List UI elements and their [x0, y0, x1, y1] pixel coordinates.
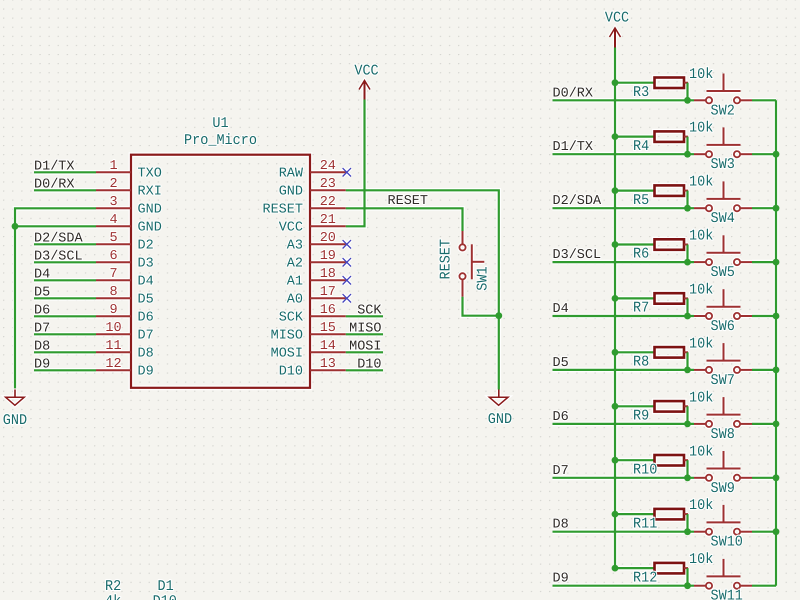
wire net D2/SDA to pin 5: [34, 243, 96, 245]
wire net MISO pin 15: [346, 333, 383, 335]
svg-text:14: 14: [320, 339, 336, 354]
pin 4 stub U1 left: [96, 225, 131, 227]
svg-text:3: 3: [109, 195, 117, 210]
svg-text:D10: D10: [279, 364, 303, 379]
svg-text:VCC: VCC: [279, 220, 303, 235]
svg-text:R12: R12: [633, 570, 657, 587]
svg-text:SW11: SW11: [711, 589, 743, 600]
junction node VCC bus R7: [612, 295, 619, 302]
wire SW9 to output bus: [752, 477, 776, 479]
svg-text:R9: R9: [633, 409, 649, 426]
junction node VCC bus R3: [612, 79, 619, 86]
switch SW3: [694, 127, 752, 173]
svg-text:TXO: TXO: [138, 166, 162, 181]
svg-text:GND: GND: [488, 412, 512, 429]
junction node output bus row 9: [773, 528, 780, 535]
wire SW2 to output bus: [752, 99, 776, 101]
svg-text:D5: D5: [553, 356, 569, 371]
wire SW4 to output bus: [752, 207, 776, 209]
svg-text:10k: 10k: [689, 498, 713, 515]
IC U1 Pro_Micro body: [131, 155, 310, 388]
svg-text:SW1: SW1: [476, 266, 493, 290]
wire branch R10: [615, 459, 655, 461]
wire net D9 to pin 12: [34, 369, 96, 371]
wire branch R12: [615, 567, 655, 569]
svg-text:D4: D4: [34, 267, 50, 282]
wire SW3 to output bus: [752, 153, 776, 155]
wire net D6 to pin 9: [34, 315, 96, 317]
svg-text:MISO: MISO: [271, 328, 303, 343]
svg-text:10k: 10k: [689, 390, 713, 407]
svg-text:D10: D10: [153, 594, 177, 600]
svg-text:D7: D7: [34, 321, 50, 336]
switch SW5: [694, 235, 752, 281]
pin 16 stub U1 right: [310, 315, 346, 317]
svg-text:D8: D8: [138, 346, 154, 361]
wire branch R4: [615, 136, 655, 138]
svg-text:10k: 10k: [689, 67, 713, 84]
junction node VCC bus R9: [612, 403, 619, 410]
wire net D3/SCL row: [553, 261, 695, 263]
svg-text:D5: D5: [138, 292, 154, 307]
svg-text:A3: A3: [287, 238, 303, 253]
pin 6 stub U1 left: [96, 261, 131, 263]
wire R11 output elbow: [684, 513, 688, 515]
svg-text:10k: 10k: [689, 121, 713, 138]
svg-text:GND: GND: [3, 413, 27, 430]
switch SW10: [694, 505, 752, 551]
svg-text:U1: U1: [212, 116, 228, 133]
svg-text:15: 15: [320, 321, 336, 336]
svg-text:D4: D4: [553, 302, 569, 317]
svg-text:R4: R4: [633, 139, 649, 156]
wire net D7 to pin 10: [34, 333, 96, 335]
resistor R10 10k: [633, 444, 713, 479]
wire R6 output elbow: [684, 244, 688, 246]
svg-text:9: 9: [109, 303, 117, 318]
wire net D2/SDA row: [553, 207, 695, 209]
junction node R10 to row: [684, 474, 691, 481]
wire pin3 GND elbow: [15, 208, 96, 226]
svg-text:D1/TX: D1/TX: [34, 159, 75, 174]
wire net D8 to pin 11: [34, 351, 96, 353]
wire R8 output elbow: [684, 351, 688, 353]
junction node output bus row 6: [773, 367, 780, 374]
svg-text:24: 24: [320, 159, 336, 174]
svg-text:D0/RX: D0/RX: [553, 86, 594, 101]
svg-text:D2/SDA: D2/SDA: [553, 194, 603, 209]
no-connect X pin 17: [343, 294, 351, 302]
svg-text:R5: R5: [633, 193, 649, 210]
wire VCC from pin21: [346, 100, 365, 227]
svg-text:12: 12: [105, 357, 121, 372]
svg-text:A0: A0: [287, 292, 303, 307]
junction node VCC bus R10: [612, 457, 619, 464]
wire net D1/TX to pin 1: [34, 171, 96, 173]
wire SW10 to output bus: [752, 531, 776, 533]
wire SW8 to output bus: [752, 423, 776, 425]
svg-text:D3/SCL: D3/SCL: [34, 249, 83, 264]
wire net D5 to pin 8: [34, 297, 96, 299]
svg-text:D3: D3: [138, 256, 154, 271]
switch SW4: [694, 181, 752, 227]
switch SW7: [694, 343, 752, 389]
junction node R6 to row: [684, 259, 691, 266]
switch SW1: [439, 231, 493, 297]
svg-text:Pro_Micro: Pro_Micro: [184, 133, 257, 150]
junction node output bus row 2: [773, 151, 780, 158]
svg-text:SW8: SW8: [711, 427, 735, 444]
pin 22 stub U1 right: [310, 207, 346, 209]
ground symbol left: [3, 390, 27, 430]
wire branch R8: [615, 351, 655, 353]
svg-text:GND: GND: [138, 220, 162, 235]
power symbol VCC top right: [605, 11, 629, 48]
wire R12 output elbow: [684, 567, 688, 569]
wire net D4 row: [553, 315, 695, 317]
wire net D6 row: [553, 423, 695, 425]
wire SW7 to output bus: [752, 369, 776, 371]
svg-text:SW4: SW4: [711, 211, 735, 228]
svg-text:5: 5: [109, 231, 117, 246]
junction node VCC bus R12: [612, 565, 619, 572]
svg-text:D8: D8: [34, 339, 50, 354]
svg-text:D9: D9: [138, 364, 154, 379]
svg-text:R10: R10: [633, 462, 657, 479]
resistor R9 10k: [633, 390, 713, 425]
svg-text:SCK: SCK: [279, 310, 304, 325]
wire branch R7: [615, 297, 655, 299]
svg-text:D4: D4: [138, 274, 154, 289]
svg-text:R3: R3: [633, 85, 649, 102]
switch SW2: [694, 74, 752, 120]
junction node pins3-4 GND: [12, 223, 19, 230]
pin 1 stub U1 left: [96, 171, 131, 173]
wire RESET from pin22: [346, 208, 463, 231]
svg-text:SW6: SW6: [711, 319, 735, 336]
wire net D0/RX to pin 2: [34, 189, 96, 191]
svg-text:10k: 10k: [689, 283, 713, 300]
junction node R4 to row: [684, 151, 691, 158]
junction node R9 to row: [684, 421, 691, 428]
resistor R11 10k: [633, 498, 713, 533]
junction node output bus row 8: [773, 474, 780, 481]
wire pin4 GND: [15, 225, 96, 227]
pin 19 stub U1 right: [310, 261, 346, 263]
junction node R8 to row: [684, 367, 691, 374]
svg-text:RESET: RESET: [439, 239, 456, 280]
wire net D7 row: [553, 477, 695, 479]
svg-text:10k: 10k: [689, 229, 713, 246]
svg-text:R7: R7: [633, 301, 649, 318]
pin 14 stub U1 right: [310, 351, 346, 353]
wire net D4 to pin 7: [34, 279, 96, 281]
svg-text:D9: D9: [34, 357, 50, 372]
wire branch R3: [615, 82, 655, 84]
wire switch output bus vertical: [775, 100, 777, 585]
pin 8 stub U1 left: [96, 297, 131, 299]
svg-text:21: 21: [320, 213, 336, 228]
pin 23 stub U1 right: [310, 189, 346, 191]
svg-text:SW2: SW2: [711, 103, 735, 120]
junction node R11 to row: [684, 528, 691, 535]
svg-text:SW3: SW3: [711, 157, 735, 174]
no-connect X pin 20: [343, 240, 351, 248]
svg-text:16: 16: [320, 303, 336, 318]
svg-text:D9: D9: [553, 572, 569, 587]
svg-text:13: 13: [320, 357, 336, 372]
svg-text:SW9: SW9: [711, 481, 735, 498]
svg-text:11: 11: [105, 339, 121, 354]
svg-text:10: 10: [105, 321, 121, 336]
svg-text:D0/RX: D0/RX: [34, 177, 75, 192]
svg-text:D6: D6: [34, 303, 50, 318]
wire SW1 to GND net: [463, 297, 499, 316]
svg-text:MOSI: MOSI: [271, 346, 303, 361]
junction node VCC bus R11: [612, 511, 619, 518]
svg-text:D6: D6: [138, 310, 154, 325]
svg-text:SW10: SW10: [711, 535, 743, 552]
svg-text:10k: 10k: [689, 552, 713, 569]
svg-text:D8: D8: [553, 518, 569, 533]
junction node VCC bus R8: [612, 349, 619, 356]
svg-text:D2: D2: [138, 238, 154, 253]
svg-text:R11: R11: [633, 516, 657, 533]
svg-text:VCC: VCC: [605, 11, 629, 28]
svg-text:MISO: MISO: [349, 321, 381, 336]
resistor R4 10k: [633, 121, 713, 156]
switch SW8: [694, 397, 752, 443]
wire net D1/TX row: [553, 153, 695, 155]
svg-text:R6: R6: [633, 247, 649, 264]
pin 24 stub U1 right: [310, 171, 346, 173]
svg-text:RXI: RXI: [138, 184, 162, 199]
svg-text:SW7: SW7: [711, 373, 735, 390]
junction node SW1-GND: [495, 312, 502, 319]
no-connect X pin 24: [343, 168, 351, 176]
pin 18 stub U1 right: [310, 279, 346, 281]
svg-text:SCK: SCK: [357, 303, 382, 318]
switch SW6: [694, 289, 752, 335]
junction node R5 to row: [684, 205, 691, 212]
wire net SCK pin 16: [346, 315, 383, 317]
wire net MOSI pin 14: [346, 351, 383, 353]
wire branch R6: [615, 243, 655, 245]
switch SW11: [694, 559, 752, 600]
junction node R3 to row: [684, 97, 691, 104]
wire SW6 to output bus: [752, 315, 776, 317]
svg-text:7: 7: [109, 267, 117, 282]
wire branch R9: [615, 405, 655, 407]
svg-text:D2/SDA: D2/SDA: [34, 231, 84, 246]
pin 7 stub U1 left: [96, 279, 131, 281]
pin 5 stub U1 left: [96, 243, 131, 245]
svg-text:10k: 10k: [689, 444, 713, 461]
svg-text:20: 20: [320, 231, 336, 246]
resistor R7 10k: [633, 283, 713, 318]
wire GND vertical down: [14, 226, 16, 388]
wire VCC bus vertical: [614, 48, 616, 569]
junction node R12 to row: [684, 582, 691, 589]
ground symbol right: [488, 390, 512, 429]
pin 10 stub U1 left: [96, 333, 131, 335]
svg-text:23: 23: [320, 177, 336, 192]
svg-text:8: 8: [109, 285, 117, 300]
wire net D0/RX row: [553, 99, 695, 101]
no-connect X pin 18: [343, 276, 351, 284]
junction node VCC bus R6: [612, 241, 619, 248]
wire R5 output elbow: [684, 190, 688, 192]
svg-text:RESET: RESET: [388, 194, 429, 209]
junction node output bus row 4: [773, 259, 780, 266]
svg-text:D3/SCL: D3/SCL: [553, 248, 602, 263]
svg-text:1: 1: [109, 159, 117, 174]
svg-text:10k: 10k: [689, 336, 713, 353]
svg-text:4: 4: [109, 213, 117, 228]
switch SW9: [694, 451, 752, 497]
junction node output bus row 7: [773, 421, 780, 428]
resistor R8 10k: [633, 336, 713, 371]
wire GND from pin23: [346, 190, 499, 389]
junction node output bus row 3: [773, 205, 780, 212]
svg-text:17: 17: [320, 285, 336, 300]
wire R4 output elbow: [684, 136, 688, 138]
junction node VCC bus R5: [612, 187, 619, 194]
svg-text:MOSI: MOSI: [349, 339, 381, 354]
wire R3 output elbow: [684, 82, 688, 84]
svg-text:D10: D10: [357, 357, 381, 372]
svg-text:GND: GND: [279, 184, 303, 199]
resistor R12 10k: [633, 552, 713, 587]
svg-text:19: 19: [320, 249, 336, 264]
pin 2 stub U1 left: [96, 189, 131, 191]
svg-text:A2: A2: [287, 256, 303, 271]
power symbol VCC left: [354, 64, 378, 100]
svg-text:D1/TX: D1/TX: [553, 140, 594, 155]
wire R9 output elbow: [684, 405, 688, 407]
junction node R7 to row: [684, 313, 691, 320]
resistor R3 10k: [633, 67, 713, 102]
svg-text:SW5: SW5: [711, 265, 735, 282]
pin 13 stub U1 right: [310, 369, 346, 371]
wire net D3/SCL to pin 6: [34, 261, 96, 263]
resistor R2 labels (cut off): [105, 579, 121, 600]
svg-text:10k: 10k: [689, 175, 713, 192]
pin 9 stub U1 left: [96, 315, 131, 317]
no-connect X pin 19: [343, 258, 351, 266]
svg-text:18: 18: [320, 267, 336, 282]
pin 12 stub U1 left: [96, 369, 131, 371]
svg-text:GND: GND: [138, 202, 162, 217]
resistor R5 10k: [633, 175, 713, 210]
pin 3 stub U1 left: [96, 207, 131, 209]
wire net D10 pin 13: [346, 369, 383, 371]
wire SW11 to output bus: [752, 585, 776, 587]
svg-text:6: 6: [109, 249, 117, 264]
wire branch R11: [615, 513, 655, 515]
wire net D5 row: [553, 369, 695, 371]
svg-text:22: 22: [320, 195, 336, 210]
svg-text:RAW: RAW: [279, 166, 304, 181]
pin 21 stub U1 right: [310, 225, 346, 227]
junction node output bus row 5: [773, 313, 780, 320]
svg-text:VCC: VCC: [354, 64, 378, 81]
svg-text:D5: D5: [34, 285, 50, 300]
wire R10 output elbow: [684, 459, 688, 461]
svg-text:D7: D7: [138, 328, 154, 343]
pin 11 stub U1 left: [96, 351, 131, 353]
svg-text:2: 2: [109, 177, 117, 192]
resistor R6 10k: [633, 229, 713, 264]
pin 20 stub U1 right: [310, 243, 346, 245]
svg-text:RESET: RESET: [262, 202, 303, 217]
svg-text:4k: 4k: [105, 594, 121, 600]
wire SW5 to output bus: [752, 261, 776, 263]
svg-text:D7: D7: [553, 464, 569, 479]
wire net D9 row: [553, 585, 695, 587]
diode D1 labels (cut off): [153, 579, 177, 600]
wire net D8 row: [553, 531, 695, 533]
pin 17 stub U1 right: [310, 297, 346, 299]
junction node VCC bus R4: [612, 133, 619, 140]
svg-text:D6: D6: [553, 410, 569, 425]
svg-text:R8: R8: [633, 355, 649, 372]
svg-text:A1: A1: [287, 274, 303, 289]
wire R7 output elbow: [684, 297, 688, 299]
pin 15 stub U1 right: [310, 333, 346, 335]
wire branch R5: [615, 190, 655, 192]
